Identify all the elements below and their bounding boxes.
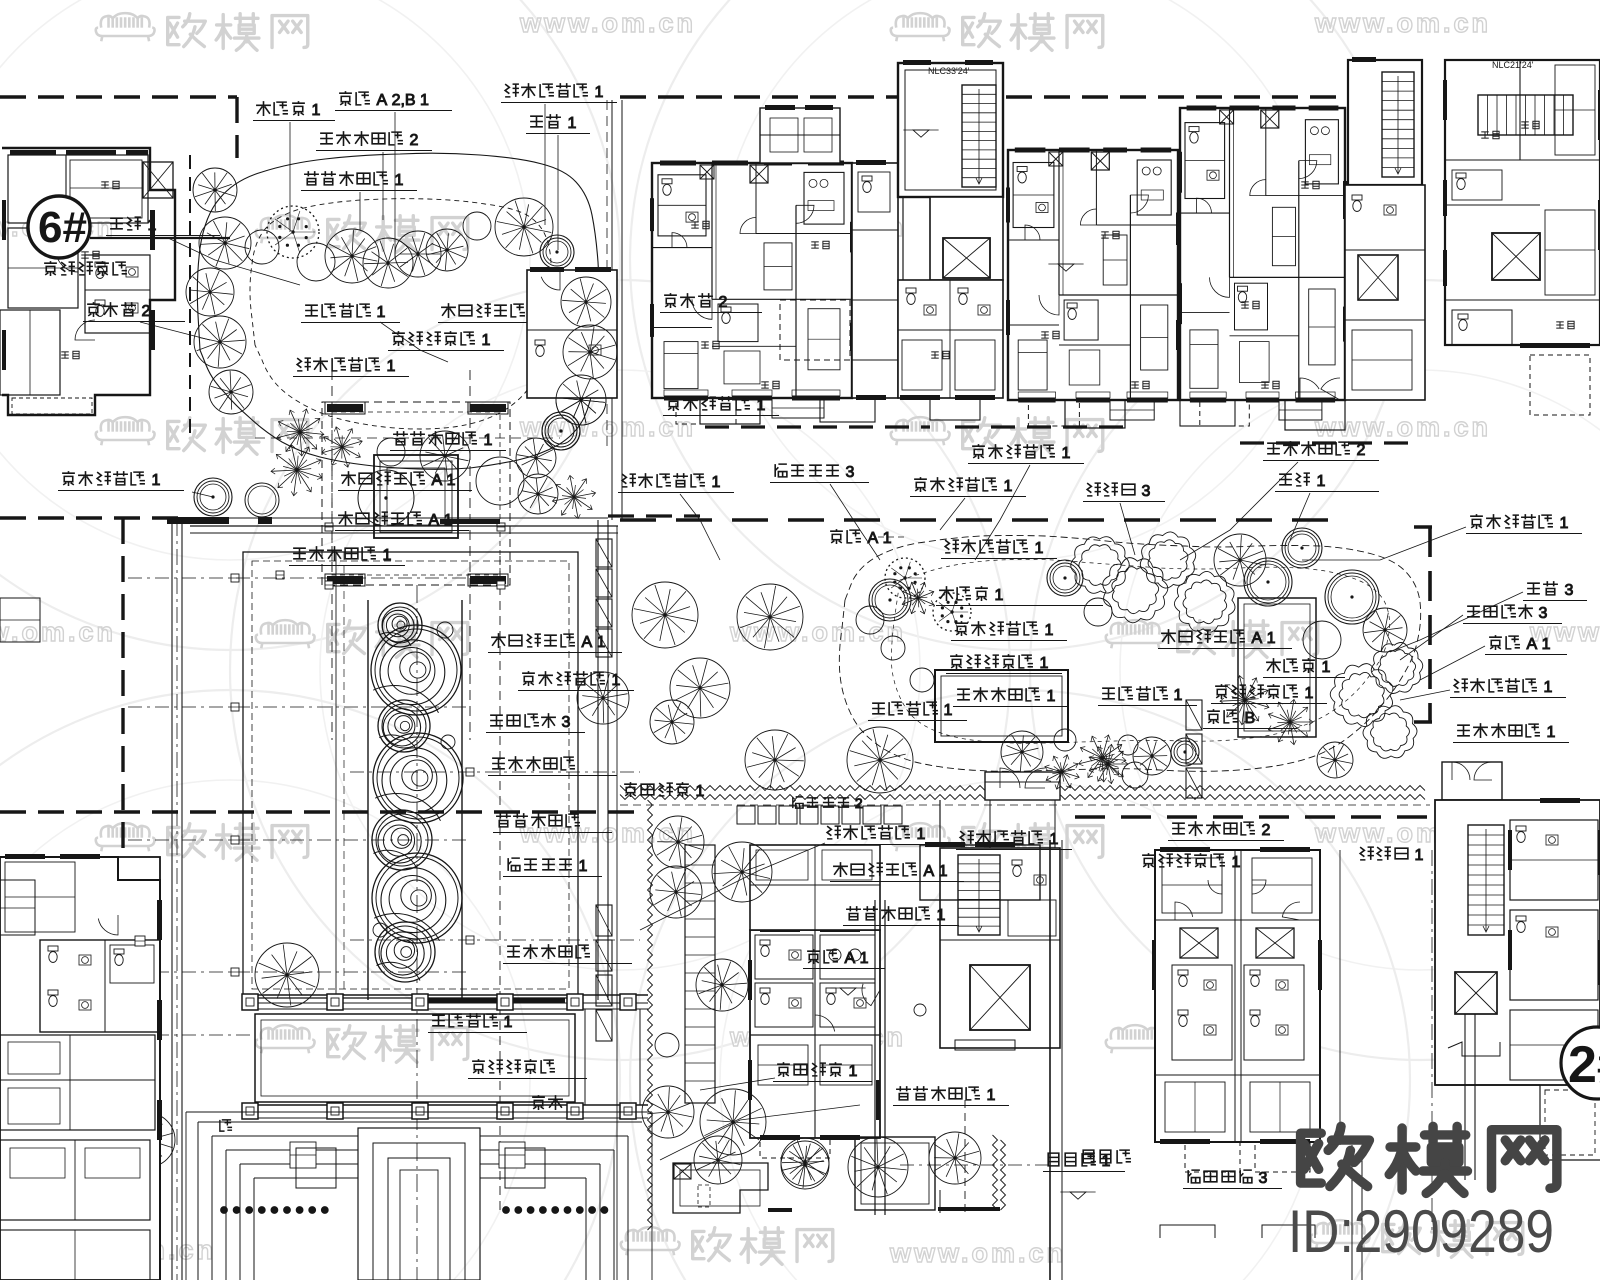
- top-right building row: [652, 163, 852, 398]
- svg-text:www.om.cn: www.om.cn: [729, 617, 906, 647]
- amphitheater steps: [198, 1121, 642, 1123]
- upper rooms of B1: [750, 845, 880, 930]
- trees left of building: [652, 816, 704, 868]
- pavilion structure: [322, 402, 510, 585]
- plaza sunken frame: [243, 552, 578, 998]
- svg-text:NLC33'24': NLC33'24': [928, 66, 970, 76]
- corridor and core: [874, 900, 876, 1215]
- svg-text:1: 1: [1042, 688, 1055, 705]
- svg-text:2: 2: [851, 795, 863, 811]
- bottom-center building: [685, 845, 715, 1103]
- svg-text:A 1: A 1: [577, 634, 606, 651]
- middle garden trees: [632, 582, 698, 648]
- top-left garden labels: [256, 101, 271, 116]
- 6# circle label: [28, 196, 90, 258]
- svg-text:3: 3: [1137, 483, 1150, 500]
- svg-text:2: 2: [714, 294, 727, 311]
- building right walls: [1049, 840, 1051, 1280]
- pavilion labels: [393, 431, 408, 445]
- svg-text:A 1: A 1: [863, 530, 892, 547]
- plaza left labels: [490, 715, 503, 726]
- svg-text:1: 1: [1317, 659, 1330, 676]
- svg-text:A 1: A 1: [1247, 630, 1276, 647]
- svg-text:1: 1: [382, 358, 395, 375]
- svg-text:1: 1: [1045, 831, 1058, 848]
- svg-text:1: 1: [372, 304, 385, 321]
- svg-text:1: 1: [1035, 655, 1048, 672]
- svg-text:1: 1: [390, 172, 403, 189]
- dot rows: [221, 1207, 228, 1214]
- svg-text:2: 2: [1352, 442, 1365, 459]
- svg-text:1: 1: [1097, 1153, 1110, 1170]
- entrance canopy: [985, 772, 1060, 800]
- svg-text:6#: 6#: [38, 203, 87, 252]
- svg-text:www.om.cn: www.om.cn: [519, 8, 696, 38]
- svg-text:1: 1: [574, 858, 587, 875]
- svg-text:1: 1: [1169, 687, 1182, 704]
- svg-text:1: 1: [1312, 473, 1325, 490]
- 2# circle: [1561, 1027, 1600, 1099]
- svg-text:ID:2909289: ID:2909289: [1288, 1198, 1554, 1265]
- svg-text:1: 1: [378, 547, 391, 564]
- bottom-left building: [0, 857, 160, 1280]
- svg-text:1: 1: [1542, 724, 1555, 741]
- planting cell strips: [596, 539, 612, 567]
- svg-text:1: 1: [607, 672, 620, 689]
- property boundary dashed lines: [0, 95, 237, 98]
- svg-text:1: 1: [990, 587, 1003, 604]
- svg-text:1: 1: [1410, 847, 1423, 864]
- right stair tower: [1348, 60, 1422, 185]
- svg-text:1: 1: [477, 332, 490, 349]
- svg-text:1: 1: [707, 474, 720, 491]
- middle garden planters: [935, 670, 1068, 742]
- svg-text:2#: 2#: [1568, 1036, 1600, 1094]
- middle garden labels: [972, 444, 985, 459]
- svg-text:3: 3: [1560, 582, 1573, 599]
- svg-text:A 1: A 1: [427, 472, 456, 489]
- svg-text:1: 1: [479, 432, 492, 449]
- svg-text:A 1: A 1: [919, 863, 948, 880]
- top-left garden bed boundary: [197, 153, 599, 469]
- svg-text:3: 3: [1254, 1170, 1267, 1187]
- paving circle medallions: [367, 600, 369, 1000]
- label leader lines: [289, 122, 291, 232]
- hedge zigzag rows: [620, 786, 1425, 791]
- svg-text:2: 2: [1257, 822, 1270, 839]
- central portal steps: [358, 1128, 480, 1280]
- middle garden bed boundary: [839, 536, 1420, 772]
- bottom-mid building: [1155, 850, 1320, 1142]
- svg-text:1: 1: [932, 907, 945, 924]
- plaza roads and axes: [171, 520, 173, 1280]
- svg-text:A 1: A 1: [1522, 636, 1551, 653]
- rooms between unit1 and tower: [852, 163, 898, 398]
- lower planters: [673, 1163, 768, 1213]
- mid building section walls: [898, 280, 1003, 398]
- svg-text:1: 1: [752, 397, 765, 414]
- svg-text:1: 1: [982, 1087, 995, 1104]
- svg-text:B: B: [1240, 710, 1255, 727]
- svg-text:1: 1: [1040, 622, 1053, 639]
- unit block A: [750, 930, 880, 1138]
- svg-text:1: 1: [1555, 515, 1568, 532]
- svg-text:1: 1: [1227, 854, 1240, 871]
- svg-text:1: 1: [307, 102, 320, 119]
- pool pergola rails: [243, 994, 648, 996]
- svg-text:1: 1: [563, 115, 576, 132]
- left strip misc: [0, 598, 40, 642]
- extra row1 labels: [664, 293, 677, 308]
- svg-text:1: 1: [939, 702, 952, 719]
- svg-text:A 1: A 1: [840, 950, 869, 967]
- stair tower NLC33: [898, 63, 1003, 197]
- svg-text:www.om.cn: www.om.cn: [1314, 412, 1491, 442]
- road edge lines: [611, 100, 613, 520]
- svg-text:1: 1: [1057, 445, 1070, 462]
- svg-text:1: 1: [1300, 685, 1313, 702]
- svg-text:www.om.cn: www.om.cn: [889, 1238, 1066, 1268]
- far-right building block: [1445, 60, 1600, 345]
- svg-text:A 2,B 1: A 2,B 1: [372, 92, 429, 109]
- leader lines mid garden: [975, 465, 1030, 560]
- row1 middle rooms: [760, 108, 840, 163]
- svg-text:2: 2: [405, 132, 418, 149]
- svg-text:1: 1: [590, 84, 603, 101]
- svg-text:1: 1: [844, 1063, 857, 1080]
- svg-text:2: 2: [137, 303, 150, 320]
- small room labels: [701, 342, 709, 348]
- B1 labels: [827, 826, 841, 839]
- top-left garden trees: [193, 168, 237, 212]
- svg-text:3: 3: [841, 464, 854, 481]
- B2 labels: [1172, 823, 1185, 834]
- watermark layer: [0, 0, 620, 650]
- svg-text:1: 1: [499, 1014, 512, 1031]
- svg-text:1: 1: [1030, 540, 1043, 557]
- 6# building floor plan: [2, 148, 175, 415]
- svg-text:1: 1: [912, 826, 925, 843]
- svg-text:3: 3: [1534, 605, 1547, 622]
- bottom-right building: [1442, 762, 1502, 800]
- svg-text:1: 1: [147, 472, 160, 489]
- watermark big logo bottom right: [1301, 1126, 1370, 1186]
- svg-text:www.om.cn: www.om.cn: [1314, 8, 1491, 38]
- svg-text:1: 1: [999, 478, 1012, 495]
- svg-text:1: 1: [1539, 679, 1552, 696]
- svg-text:NLC21'24': NLC21'24': [1492, 60, 1534, 70]
- hedge planter row: [737, 806, 755, 824]
- svg-text:3: 3: [557, 714, 570, 731]
